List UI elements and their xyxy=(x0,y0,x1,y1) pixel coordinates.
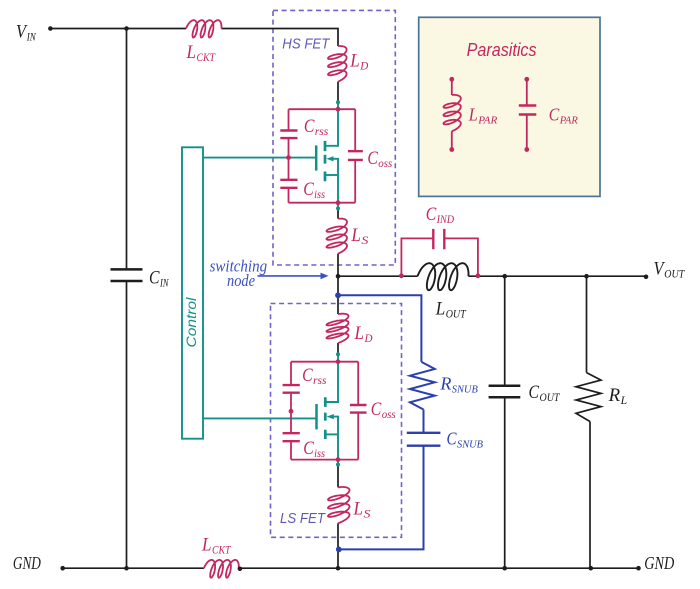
svg-text:C: C xyxy=(529,382,540,403)
inductor LD HS xyxy=(328,46,347,82)
LS FET dashed box xyxy=(271,304,402,538)
svg-text:OUT: OUT xyxy=(540,392,561,404)
svg-text:C: C xyxy=(149,268,160,289)
svg-text:R: R xyxy=(608,385,621,406)
HS FET dashed box xyxy=(273,10,395,265)
LS FET pink frame xyxy=(291,362,358,460)
resistor RSNUB xyxy=(410,362,435,410)
inductor LCKT top coil xyxy=(186,20,222,37)
svg-text:IND: IND xyxy=(436,214,455,226)
node GND terminal dot right xyxy=(636,566,641,571)
svg-text:HS FET: HS FET xyxy=(282,36,331,53)
capacitor Ciss LS plates xyxy=(283,433,300,441)
wire RL column upper xyxy=(586,276,588,372)
svg-text:R: R xyxy=(439,374,451,394)
svg-text:L: L xyxy=(201,535,211,556)
svg-text:PAR: PAR xyxy=(477,115,497,127)
node junction GND rail / COUT branch xyxy=(502,566,507,571)
svg-text:C: C xyxy=(303,439,314,459)
svg-text:L: L xyxy=(468,105,478,125)
wire HS FET to LS coil xyxy=(337,208,339,218)
svg-text:oss: oss xyxy=(382,407,396,421)
inductor LPAR xyxy=(444,79,461,149)
capacitor Coss HS plates xyxy=(348,151,363,160)
wire LD-LS to LS FET xyxy=(337,343,339,354)
svg-text:iss: iss xyxy=(314,446,325,460)
node junction VOUT rail / RL branch xyxy=(584,274,589,279)
wire LS-HS coil to switching node xyxy=(337,254,339,277)
svg-text:L: L xyxy=(349,52,359,72)
node junction VIN rail / CIN branch xyxy=(124,26,129,31)
wire LS FET to LS-LS coil xyxy=(337,465,339,488)
svg-text:L: L xyxy=(353,500,363,520)
svg-text:D: D xyxy=(364,331,373,345)
svg-text:OUT: OUT xyxy=(446,309,467,321)
svg-text:C: C xyxy=(304,117,315,137)
node switching (blue dot) xyxy=(335,292,341,298)
wire gate HS xyxy=(203,157,316,159)
capacitor COUT xyxy=(489,386,521,398)
node junction GND rail / LS FET branch xyxy=(336,566,341,571)
capacitor Ciss HS plates xyxy=(280,180,297,188)
mosfet U1 HS (teal) xyxy=(316,102,338,208)
svg-text:Control: Control xyxy=(183,297,199,348)
svg-text:IN: IN xyxy=(159,278,169,290)
capacitor CSNUB xyxy=(407,433,441,446)
resistor RL xyxy=(576,373,601,422)
inductor LD LS xyxy=(327,314,349,343)
wire top rail LCKT to HS FET xyxy=(221,29,338,47)
node dots HS cell xyxy=(336,100,340,104)
wire bottom rail left xyxy=(63,567,204,569)
node switching junction xyxy=(336,274,341,279)
node VOUT terminal dot xyxy=(644,275,649,280)
svg-text:node: node xyxy=(227,271,255,290)
node GND terminal dot left xyxy=(60,566,65,571)
svg-text:S: S xyxy=(364,507,371,521)
wire LS-LS coil to bottom rail xyxy=(337,523,339,568)
svg-text:rss: rss xyxy=(315,124,329,138)
wire left rail lower xyxy=(126,281,128,568)
node snubber return (blue dot) xyxy=(336,547,342,553)
svg-text:SNUB: SNUB xyxy=(457,439,483,451)
wire COUT column lower xyxy=(504,397,506,568)
svg-text:GND: GND xyxy=(13,553,41,573)
HS FET pink frame xyxy=(289,109,356,203)
wire LD-HS to FET xyxy=(337,82,339,103)
wire RSNUB to CSNUB xyxy=(423,410,425,433)
node junction VOUT rail / COUT branch xyxy=(502,274,507,279)
wire snubber bottom (blue) xyxy=(339,446,424,550)
svg-text:GND: GND xyxy=(644,553,674,573)
wire top rail VIN to LCKT xyxy=(50,28,186,30)
svg-text:C: C xyxy=(302,366,313,386)
capacitor CIND path xyxy=(401,229,478,276)
svg-text:L: L xyxy=(354,324,364,344)
capacitor CIN xyxy=(111,269,143,281)
svg-text:CKT: CKT xyxy=(212,545,232,557)
svg-text:SNUB: SNUB xyxy=(452,384,478,396)
node junction GND rail / LCKT xyxy=(238,567,243,572)
node dots LS cell xyxy=(336,352,340,356)
svg-text:oss: oss xyxy=(378,156,392,170)
wire snubber top (blue) xyxy=(338,295,421,362)
svg-text:OUT: OUT xyxy=(664,269,685,281)
svg-text:C: C xyxy=(371,400,382,420)
inductor LS LS xyxy=(328,487,350,523)
mosfet U2 LS (teal) xyxy=(317,354,339,464)
node VIN terminal dot xyxy=(48,26,53,31)
wire gate LS xyxy=(203,417,317,419)
node junction GND rail / RL branch xyxy=(589,566,594,571)
svg-text:L: L xyxy=(186,42,196,63)
wire left rail upper xyxy=(126,29,128,270)
capacitor Crss HS plates xyxy=(280,131,297,139)
svg-text:LS FET: LS FET xyxy=(280,510,327,527)
svg-text:PAR: PAR xyxy=(559,115,578,127)
wire COUT column upper xyxy=(504,276,506,386)
node junction GND rail / CIN branch xyxy=(124,566,129,571)
svg-text:S: S xyxy=(361,233,368,247)
svg-text:L: L xyxy=(620,395,628,407)
svg-text:IN: IN xyxy=(26,32,37,44)
capacitor Coss LS plates xyxy=(350,405,367,413)
inductor LCKT bottom coil xyxy=(204,560,239,578)
wire switching node rail to VOUT xyxy=(338,275,418,277)
control block xyxy=(182,147,203,438)
svg-text:C: C xyxy=(447,429,457,449)
svg-text:C: C xyxy=(549,105,560,125)
svg-text:L: L xyxy=(435,299,445,320)
svg-text:CKT: CKT xyxy=(197,52,217,64)
svg-text:C: C xyxy=(303,180,314,200)
parasitics legend box xyxy=(419,17,600,196)
svg-text:Parasitics: Parasitics xyxy=(467,40,537,60)
svg-text:iss: iss xyxy=(314,187,325,201)
wire switching node down to LD-LS xyxy=(337,276,339,314)
capacitor CPAR xyxy=(519,79,537,149)
svg-text:L: L xyxy=(350,226,360,246)
wire bottom rail right xyxy=(239,567,639,569)
svg-text:C: C xyxy=(367,149,378,169)
svg-text:C: C xyxy=(426,205,437,225)
wire RL column lower xyxy=(589,422,591,569)
switching node arrow xyxy=(258,275,322,277)
inductor LOUT xyxy=(418,263,469,290)
capacitor Crss LS plates xyxy=(283,385,300,393)
inductor LS HS xyxy=(327,219,348,254)
svg-text:D: D xyxy=(359,59,368,73)
svg-text:rss: rss xyxy=(313,373,327,387)
